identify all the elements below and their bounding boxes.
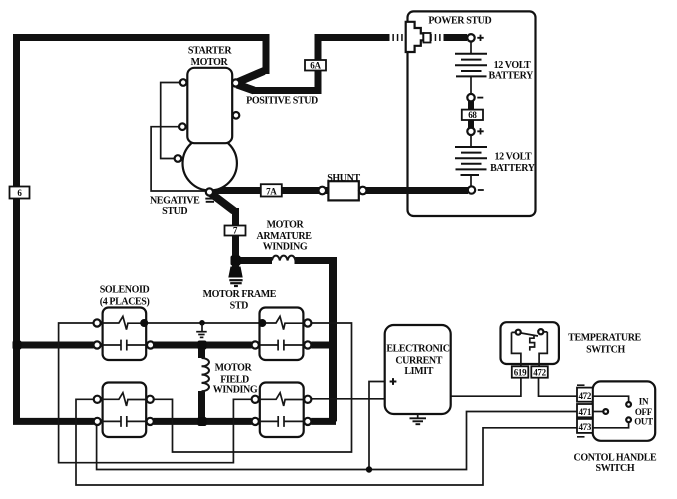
terminal: shunt right [359,187,367,195]
solenoid S1 contact [101,340,147,351]
svg-text:MOTOR: MOTOR [191,57,229,68]
ECL plus sign [390,378,397,385]
wire: field winding bottom stub [198,391,205,421]
wire: upper solenoid row right segment [311,342,336,349]
solenoid S4 contact [259,416,304,427]
svg-text:MOTOR: MOTOR [267,219,305,230]
wire 7A: negative stud to shunt to battery - [213,187,469,194]
solenoid S3 breaker blade [101,393,147,406]
junction: armature at motor frame [231,256,241,266]
battery B1 plates [455,54,487,77]
svg-text:619: 619 [514,368,527,378]
terminal box 473 [577,419,593,433]
solenoid S2 contact [259,340,304,351]
node: ECL plus junction [366,466,372,472]
terminal: motor left 3 [175,155,182,162]
svg-text:12 VOLT: 12 VOLT [495,151,532,162]
power stud ferrule [423,33,430,43]
wire 7: vertical through label 7 to junction [236,208,273,261]
svg-text:CONTOL HANDLE: CONTOL HANDLE [574,452,657,463]
svg-text:SWITCH: SWITCH [596,463,635,474]
wire: upper solenoid coil bus to ground [148,322,259,324]
svg-text:SHUNT: SHUNT [327,173,360,184]
svg-text:STD: STD [230,300,248,311]
wire tag 6A [305,60,326,71]
wire: armature winding to right vertical [295,257,334,264]
wire: lower-right solenoid coil to ECL input [311,398,384,400]
wire tag 68 [462,110,483,120]
svg-text:LIMIT: LIMIT [404,366,433,377]
wire: 68 connector to battery2 positive [468,119,474,129]
terminal: motor left 1 [180,79,187,86]
wire: upper-left solenoid coil to lower-right solenoid coil [59,323,252,463]
svg-text:MOTOR FRAME: MOTOR FRAME [203,289,277,300]
wire: battery2 plates to - terminal [470,176,472,187]
terminal: S3 coil right [147,396,154,403]
contact OFF [603,409,608,414]
terminal: S4 coil left [252,396,259,403]
control switch inner wires [593,396,629,402]
temperature switch contacts [521,333,538,336]
wire: wedge positive stud to left loop [237,71,264,83]
node: S2 coil dot [258,319,266,327]
wire: battery1 + terminal to plates [470,42,472,54]
wire: motor mid terminal to negative stud [151,127,206,191]
terminal: shunt left [319,187,327,195]
terminal: S1 contact right [147,341,154,348]
coil: motor field winding [202,358,210,391]
node: S1 coil dot [140,319,148,327]
svg-text:POSITIVE STUD: POSITIVE STUD [246,96,318,107]
wire tag 6 [10,187,30,199]
terminal: S2 contact left [252,341,259,348]
wire: upper solenoid row left segment [17,342,94,349]
terminal: S4 contact left [252,418,259,425]
terminal: S2 coil right [304,319,311,326]
terminal: battery BT2 plus [467,128,474,135]
terminal: S3 contact left [94,418,101,425]
wire 471: solenoid row tap to ECL plus and control handle OFF [97,412,604,470]
terminal: S1 coil left [94,319,101,326]
negative stud terminal [206,188,213,195]
solenoid S4 breaker blade [259,393,304,406]
svg-text:ELECTRONIC: ELECTRONIC [386,344,449,355]
electronic current limit box [385,325,451,414]
shunt body [328,181,358,200]
svg-text:MOTOR: MOTOR [215,363,253,374]
terminal box 471 [577,404,593,417]
wire: motor frame stud stub [232,258,239,270]
junction: field winding bottom [198,417,207,426]
terminal: S3 coil left [94,396,101,403]
solenoid S2 breaker blade [265,316,304,329]
svg-text:12 VOLT: 12 VOLT [494,60,531,71]
svg-text:7A: 7A [266,187,277,197]
svg-text:BATTERY: BATTERY [488,70,534,81]
wire: lower-left solenoid coil right to upper-right solenoid coil right [154,323,352,452]
solenoid S4 body [260,383,304,438]
wire: lower solenoid row right segment [311,418,336,425]
svg-text:STUD: STUD [162,206,187,217]
ground: solenoid coil bus [201,323,203,332]
wire tag 619 [512,366,529,377]
node: ground tap on coil bus [199,320,205,326]
wire: ECL plus branch [369,382,385,470]
wire: wedge negative stud down to motor frame junction [211,194,234,212]
terminal: battery BT1 plus [467,34,474,41]
terminal box 472 [577,388,593,402]
terminal column ticks [577,385,585,437]
solenoid S1 body [103,308,147,361]
power stud wire dashes [390,34,444,41]
battery enclosure box [408,11,536,216]
wire: battery2 + terminal to plates [470,135,472,146]
terminal: battery BT1 minus [467,94,474,101]
ground: motor frame stud [228,267,242,278]
positive stud terminal [232,79,239,86]
svg-text:473: 473 [578,422,591,432]
terminal: battery BT2 minus [468,186,475,193]
ground: negative stud [205,199,214,202]
wire: lower solenoid row middle segment [154,418,252,425]
wire tag 472 [531,366,548,377]
svg-text:SOLENOID: SOLENOID [100,285,150,296]
solenoid S3 body [103,383,147,438]
svg-text:(4 PLACES): (4 PLACES) [100,297,150,308]
svg-text:WINDING: WINDING [213,384,258,395]
power stud symbol [406,22,424,52]
junction: left wire to upper row [13,341,22,350]
starter motor body circle [183,136,237,190]
svg-text:TEMPERATURE: TEMPERATURE [568,333,641,344]
terminal: motor left 2 [179,123,186,130]
wire: battery1 negative to 68 connector [468,100,474,111]
svg-text:POWER STUD: POWER STUD [428,16,491,27]
control handle switch box [593,381,656,440]
svg-text:6A: 6A [310,60,321,70]
solenoid S3 contact [101,416,147,427]
solenoid S2 body [260,308,304,361]
wire: motor terminal bracket [161,83,180,159]
svg-text:472: 472 [578,391,591,401]
terminal: S2 contact right [304,341,311,348]
svg-text:CURRENT: CURRENT [395,356,442,367]
terminal: S4 contact right [304,418,311,425]
wire 619: ECL to temperature switch [451,378,521,397]
svg-text:ARMATURE: ARMATURE [257,231,313,242]
wire 472: temperature switch to control handle IN [539,378,629,403]
battery B2 plates [455,147,487,175]
battery polarity signs [477,35,484,190]
ground: ECL [417,414,419,418]
wire: battery1 plates to - terminal [470,77,472,94]
terminal: S1 contact left [94,341,101,348]
wire 473: lower-left solenoid coil to control handle OUT [76,399,629,485]
coil: motor armature winding [272,256,295,261]
svg-text:OUT: OUT [634,417,653,427]
svg-text:STARTER: STARTER [188,45,233,56]
svg-text:BATTERY: BATTERY [490,163,536,174]
svg-text:IN: IN [639,396,649,406]
svg-text:68: 68 [468,110,477,120]
terminal: S3 contact right [147,418,154,425]
terminal: motor right [233,112,240,119]
wire: upper solenoid row middle segment [154,342,252,349]
wire tag 7A [261,184,282,196]
solenoid S1 breaker blade [101,316,141,329]
svg-text:471: 471 [578,407,591,417]
svg-text:WINDING: WINDING [263,241,308,252]
wire tag 7 [225,226,246,236]
svg-text:SWITCH: SWITCH [586,344,625,355]
contact OUT [626,417,631,422]
temperature switch box [501,322,559,364]
wire: right thick vertical from armature to lower row [329,257,337,421]
junction: field winding top [198,341,207,350]
starter motor body [187,68,232,143]
terminal: S4 coil right [304,396,311,403]
wire 6: battery positive loop from positive stud up-left and down left side to solenoid rows [17,38,267,422]
wire 6A: positive stud to power stud and battery + [237,85,254,91]
wire: field winding top stub [198,342,205,358]
contact IN [626,402,631,407]
svg-text:472: 472 [533,368,546,378]
